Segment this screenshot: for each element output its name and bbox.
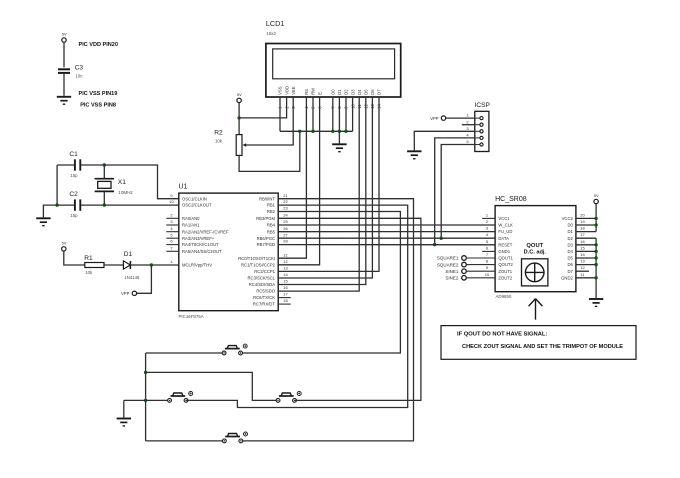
ICSP pin 1 circle [466,113,483,120]
wire C2 to OSC2 pin [81,204,179,206]
junction D4 low [594,250,597,253]
label HC_SR08 [495,196,527,203]
HC_SR08 pin 19 D0 [567,219,585,228]
svg-text:RB7/PGD: RB7/PGD [257,242,275,247]
HC_SR08 pin 3 FU_UD [486,226,512,235]
svg-text:20: 20 [580,212,585,217]
wire D1 high [576,231,596,233]
pin 1 MCLR/Vpp/THV (U1 left) [170,259,212,268]
svg-text:R1: R1 [84,255,93,262]
svg-text:C1: C1 [69,151,78,158]
LCD pin number 13 [370,103,375,108]
label D1 [124,251,133,258]
junction C1/X1 [103,163,106,166]
svg-text:D1: D1 [124,251,133,258]
wire C1 left [57,164,74,166]
wire VSS to ground bus [279,97,281,131]
svg-text:5V: 5V [237,92,242,97]
svg-text:E: E [317,92,322,95]
wire 5V to C3 [63,42,65,67]
svg-text:VCC1: VCC1 [498,216,510,221]
junction ICSP4/RB7 [433,243,436,246]
svg-text:RA2/AN2/VREF-/CVREF: RA2/AN2/VREF-/CVREF [182,229,229,234]
svg-text:15: 15 [580,245,585,250]
label ICSP [475,102,491,109]
LCD pin number 3 [291,106,296,109]
pin 3 RA1/AN1 (U1 left) [166,219,200,228]
svg-text:RA5/AN4/SS/C2OUT: RA5/AN4/SS/C2OUT [182,249,222,254]
svg-text:VSS: VSS [278,86,283,95]
svg-text:VCC2: VCC2 [562,216,574,221]
svg-text:RB1: RB1 [267,203,276,208]
svg-text:RB2: RB2 [267,209,276,214]
LCD pin number 12 [364,103,369,108]
pin 25 RB4 (U1 right) [267,219,289,228]
HC_SR08 pin 12 D7 [567,265,585,274]
label C3 [75,65,84,72]
ground (module) [589,299,603,306]
svg-text:RA0/AN0: RA0/AN0 [182,216,200,221]
value AD9850 [496,294,512,299]
pin 26 RB5 (U1 right) [267,226,289,235]
svg-text:RC2/CCP1: RC2/CCP1 [254,269,275,274]
svg-text:RC5/SDO: RC5/SDO [256,289,275,294]
wire R2 wiper to VEE [246,97,293,145]
wire D6 to RC3 [278,97,372,278]
wire RB6 to DATA [278,237,495,239]
LCD1 screen [273,49,395,79]
wire ICSP pin5 to RB6 [441,145,475,239]
svg-text:D4: D4 [357,89,362,95]
svg-text:26: 26 [283,226,288,231]
capacitor C2 [75,199,80,210]
button SW1 (top) [222,344,247,355]
HC_SR08 pin 15 D4 [567,245,585,254]
pin 12 RC1/T1OSI/CCP2 (U1 right) [241,259,288,268]
svg-text:18: 18 [580,226,585,231]
svg-text:X1: X1 [118,179,126,186]
wire D1 to bus [338,97,340,131]
LCD pin number 8 [337,106,342,109]
wire node to OSC1 pin [104,165,179,199]
LCD pin number 7 [331,106,336,109]
wire D3 low [576,244,596,246]
svg-text:10k: 10k [215,138,223,143]
arrow to trimpot [529,299,543,320]
wire C1-C2 left vertical [56,165,58,205]
terminal SQUARE1 [437,256,495,261]
LCD pin label VDD [284,86,289,95]
LCD pin number 14 [377,103,382,108]
ICSP pin 5 circle [466,139,483,146]
HC_SR08 pin 13 D6 [567,259,585,268]
svg-text:21: 21 [283,193,288,198]
wire module ground rail [595,238,597,298]
LCD pin label E [317,92,322,95]
value 15p (C2) [70,213,78,218]
pin 18 RC7/RX/DT (U1 right) [253,298,291,307]
diode D1 [123,261,130,269]
svg-text:MCLR/Vpp/THV: MCLR/Vpp/THV [182,262,212,267]
junction MCLR/VPP [150,263,153,266]
LCD pin label D7 [377,89,382,95]
pin 6 RA4/T0CKI/C1OUT (U1 left) [166,239,219,248]
wire D7 to RC2 [278,97,379,271]
value PIC16F876A [179,314,204,319]
power terminal 5V (PIC VDD) [62,32,67,43]
svg-text:10: 10 [169,199,174,204]
svg-text:SQUARE2: SQUARE2 [437,262,459,267]
note box [441,326,636,360]
svg-text:23: 23 [283,206,288,211]
svg-text:RS: RS [304,89,309,95]
svg-text:RESET: RESET [498,242,512,247]
svg-text:IF QOUT DO NOT HAVE SIGNAL:: IF QOUT DO NOT HAVE SIGNAL: [457,331,547,337]
svg-text:HC_SR08: HC_SR08 [495,196,527,203]
value 10MHz [118,190,133,195]
svg-text:SINE2: SINE2 [445,276,459,281]
svg-text:VDD: VDD [284,86,289,95]
power terminal 5V (MCLR pullup) [62,241,67,251]
svg-text:RC7/RX/DT: RC7/RX/DT [253,302,276,307]
wire D4 low [576,250,596,252]
junction GND2 [594,276,597,279]
wire C3 to ground [63,74,65,96]
wire SW2 to RB1 [186,205,408,407]
terminal SINE2 [445,276,495,281]
note PIC VDD PIN20 [79,42,118,48]
LCD pin number 4 [304,106,309,109]
wire C2 left [57,204,74,206]
pin 21 RB0/INT (U1 right) [259,193,289,202]
svg-text:D5: D5 [364,89,369,95]
HC_SR08 pin 7 QOUT1 [486,252,514,261]
svg-text:VEE: VEE [291,86,296,95]
op-amp U1 box [179,193,278,311]
module HC_SR08 box [495,206,576,292]
junction RW [311,130,314,133]
svg-text:D0: D0 [331,89,336,95]
wire ground stem (buttons) [123,400,125,417]
svg-text:VPP: VPP [430,116,439,121]
svg-text:RC6/TX/CK: RC6/TX/CK [253,295,275,300]
wire GND2 [576,277,596,279]
junction 5V/R2 [237,116,240,119]
power terminal 5V (LCD) [237,92,242,103]
svg-text:10n: 10n [75,74,83,79]
wire ICSP pin2 stub [462,124,475,126]
svg-text:10k: 10k [85,270,93,275]
svg-text:17: 17 [580,232,585,237]
svg-text:RW: RW [311,88,316,95]
svg-text:RB4: RB4 [267,223,276,228]
label U1 [179,184,188,191]
svg-text:5V: 5V [62,241,67,246]
note line 1 [457,331,547,337]
pin 5 RA3/AN3/VREF+ (U1 left) [166,232,214,241]
svg-text:R2: R2 [214,129,223,136]
svg-text:13: 13 [580,259,585,264]
svg-text:RC3/SCK/SCL: RC3/SCK/SCL [248,276,276,281]
power terminal 5V (module) [594,193,599,204]
pin 17 RC6/TX/CK (U1 right) [253,292,291,301]
svg-text:22: 22 [283,199,288,204]
svg-text:DATA: DATA [498,236,509,241]
svg-text:D0: D0 [567,223,573,228]
wire ICSP pin4 to RB7 [435,138,475,245]
wire D7 stub [576,270,589,272]
resistor R1 [85,263,104,268]
svg-text:PIC16F876A: PIC16F876A [179,314,204,319]
svg-text:GND1: GND1 [498,249,510,254]
junction ground branch [55,203,58,206]
wire RB7 to RESET [278,244,495,246]
wire branch to SW3 [146,372,277,400]
junction VCC2 [594,217,597,220]
HC_SR08 pin 6 GND1 [482,245,511,254]
svg-text:RB0/INT: RB0/INT [259,196,275,201]
label R1 [84,255,93,262]
wire D2 to bus [345,97,347,131]
value 10n [75,74,83,79]
wire MCLR to VPP [136,265,151,293]
wire RB4 to W_CLK [278,224,495,226]
LCD pin label D1 [337,89,342,95]
LCD pin number 5 [311,106,316,109]
terminal VPP (ICSP) [441,116,445,120]
ground (crystal) [36,218,50,225]
trimpot on module [522,259,548,286]
value 1N4148 [124,275,140,280]
svg-text:D6: D6 [567,262,573,267]
svg-text:RC4/SDI/SDA: RC4/SDI/SDA [249,282,276,287]
wire C1 to node OSC1 [81,164,104,166]
pin 28 RB7/PGD (U1 right) [257,239,289,248]
wire RB5 to FU_UD [278,231,495,233]
HC_SR08 pin 20 VCC2 [562,212,586,221]
HC_SR08 pin 18 D1 [567,226,585,235]
ground (LCD bus) [332,144,346,151]
pin 7 RA5/AN4/SS/C2OUT (U1 left) [166,245,222,254]
pin 14 RC3/SCK/SCL (U1 right) [248,272,289,281]
pin 24 RB3/PGM (U1 right) [256,212,288,221]
svg-text:AD9850: AD9850 [496,294,512,299]
label R2 [214,129,223,136]
junction X1/C2 [103,203,106,206]
svg-text:17: 17 [283,292,288,297]
svg-text:ZOUT1: ZOUT1 [498,269,512,274]
svg-text:D1: D1 [567,229,573,234]
LCD pin label RW [311,88,316,95]
HC_SR08 pin 10 ZOUT2 [485,272,513,281]
svg-text:FU_UD: FU_UD [498,229,512,234]
svg-text:D3: D3 [350,89,355,95]
HC_SR08 pin 4 DATA [486,232,509,241]
svg-text:D5: D5 [567,256,573,261]
svg-text:13: 13 [283,266,288,271]
ICSP pin 3 circle [466,126,483,133]
HC_SR08 pin 5 RESET [486,239,513,248]
LCD1 module box [266,44,401,98]
svg-text:15: 15 [283,279,288,284]
svg-text:15p: 15p [70,213,78,218]
terminal SQUARE2 [437,262,495,267]
junction D5 low [594,256,597,259]
svg-text:18: 18 [283,298,288,303]
value 16x2 [266,31,276,36]
label C2 [69,191,78,198]
pin 13 RC2/CCP1 (U1 right) [254,266,288,275]
pin 22 RB1 (U1 right) [267,199,289,208]
svg-text:QOUT: QOUT [526,243,543,249]
LCD pin number 6 [317,106,322,109]
wire VCC2 [576,217,596,219]
svg-text:25: 25 [283,219,288,224]
wire ground row [124,399,168,401]
ICSP pin 4 circle [466,133,483,140]
wire D2 to ground rail [576,237,596,239]
HC_SR08 pin 9 ZOUT1 [486,265,513,274]
svg-text:ICSP: ICSP [475,102,491,109]
svg-text:SINE1: SINE1 [445,269,459,274]
HC_SR08 pin 17 D2 [567,232,585,241]
ICSP pin 2 circle [466,119,483,126]
junction D3 low [594,243,597,246]
LCD pin label VSS [278,86,283,95]
wire ground backbone [145,353,147,441]
wire D0 high [576,224,596,226]
value 15p (C1) [70,173,78,178]
junction D6 low [594,263,597,266]
svg-text:VPP: VPP [121,291,130,296]
value 10k (R1) [85,270,93,275]
label X1 [118,179,126,186]
pin 4 RA2/AN2/VREF-/CVREF (U1 left) [166,226,229,235]
junction D2 [344,130,347,133]
ground (ICSP) [407,151,421,158]
wire to crystal ground [43,205,57,217]
svg-text:GND2: GND2 [561,275,573,280]
potentiometer R2 [236,135,246,156]
capacitor C1 [75,159,80,170]
svg-text:D6: D6 [370,89,375,95]
terminal VPP (MCLR) [132,291,136,295]
label VPP (MCLR) [121,291,130,296]
svg-text:RB6/PGC: RB6/PGC [257,236,275,241]
wire D5 low [576,257,596,259]
wire D3 to bus [352,97,354,131]
svg-text:5V: 5V [62,32,67,37]
wire D6 low [576,264,596,266]
svg-text:D7: D7 [377,89,382,95]
pin 10 OSC2/CLKOUT (U1 left) [169,199,212,208]
svg-text:D2: D2 [567,236,573,241]
svg-text:16x2: 16x2 [266,31,276,36]
wire RS to RC0 [278,97,306,258]
svg-text:OSC1/CLKIN: OSC1/CLKIN [182,196,207,201]
svg-text:12: 12 [580,265,585,270]
LCD pin number 1 [278,106,283,109]
label D.C. adj. [524,249,547,255]
pin 2 RA0/AN0 (U1 left) [166,212,200,221]
crystal X1 [95,165,114,205]
svg-text:D.C. adj.: D.C. adj. [524,249,547,255]
junction backbone branch [144,371,147,374]
HC_SR08 pin 8 QOUT2 [486,259,514,268]
wire D1 to MCLR pin [130,264,178,266]
LCD pin label D5 [364,89,369,95]
svg-text:PIC VSS PIN19: PIC VSS PIN19 [79,91,118,97]
label LCD1 [266,19,284,28]
wire D5 to RC4 [278,97,366,285]
svg-text:D7: D7 [567,269,573,274]
note line 2 [462,344,623,350]
svg-text:15p: 15p [70,173,78,178]
pin 23 RB2 (U1 right) [267,206,289,215]
junction R2 return on ground bus [298,130,301,133]
svg-text:QOUT2: QOUT2 [498,262,513,267]
wire VDD [239,97,287,118]
junction D0 [331,130,334,133]
wire 5V down [238,103,240,118]
svg-text:RA4/T0CKI/C1OUT: RA4/T0CKI/C1OUT [182,242,219,247]
svg-text:16: 16 [283,285,288,290]
svg-text:27: 27 [283,232,288,237]
svg-text:10MHz: 10MHz [118,190,133,195]
svg-text:5V: 5V [594,193,599,198]
svg-text:RC0/T1OSO/T1CKI: RC0/T1OSO/T1CKI [238,256,275,261]
junction backbone ground row [144,399,147,402]
svg-text:SQUARE1: SQUARE1 [437,256,459,261]
LCD pin number 2 [284,106,289,109]
wire 5V to VCC2/D0/D1 [595,204,597,232]
ground (C3) [57,97,71,104]
button SW2 (mid-left) [168,392,193,403]
LCD pin label D4 [357,89,362,95]
svg-text:D4: D4 [567,249,573,254]
svg-text:24: 24 [283,212,288,217]
wire RB2 to button SW1 [243,212,401,354]
pin 27 RB6/PGC (U1 right) [257,232,289,241]
button SW3 (mid-right) [276,392,301,403]
svg-text:C2: C2 [69,191,78,198]
note PIC VSS PIN8 [80,102,116,108]
HC_SR08 pin 1 VCC1 [482,212,510,221]
wire VPP to ICSP pin1 [446,117,475,119]
wire SW4 left to backbone [146,440,223,442]
pin 16 RC5/SDO (U1 right) [256,285,288,294]
svg-text:QOUT1: QOUT1 [498,256,513,261]
wire R2 bottom return [239,131,300,171]
label C1 [69,151,78,158]
value 10k (R2) [215,138,223,143]
wire R2 top [238,118,240,135]
connector ICSP box [475,111,489,151]
pin 11 RC0/T1OSO/T1CKI (U1 right) [238,252,288,261]
HC_SR08 pin 11 GND2 [561,272,585,281]
HC_SR08 pin 14 D5 [567,252,585,261]
pin 9 OSC1/CLKIN (U1 left) [170,193,207,202]
ground (buttons) [117,419,131,426]
wire D0 to bus [332,97,334,131]
button SW4 (bottom) [222,432,247,443]
LCD pin label D6 [370,89,375,95]
svg-text:19: 19 [580,219,585,224]
terminal SINE1 [445,269,495,274]
wire ICSP pin3 to ground [414,131,475,150]
svg-text:ZOUT2: ZOUT2 [498,275,512,280]
svg-text:RA3/AN3/VREF+: RA3/AN3/VREF+ [182,236,215,241]
